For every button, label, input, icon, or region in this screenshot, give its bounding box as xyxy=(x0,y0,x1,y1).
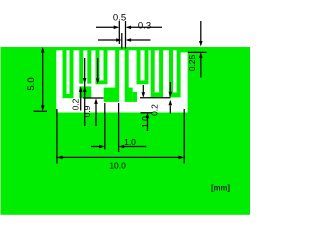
svg-text:0.2: 0.2 xyxy=(150,104,160,116)
svg-text:0.9: 0.9 xyxy=(82,105,92,117)
svg-text:5.0: 5.0 xyxy=(26,77,37,90)
svg-text:0.2: 0.2 xyxy=(70,98,80,110)
svg-text:1.0: 1.0 xyxy=(124,137,136,147)
svg-text:10.0: 10.0 xyxy=(109,161,126,171)
svg-text:0.5: 0.5 xyxy=(113,12,126,23)
svg-text:1.0: 1.0 xyxy=(140,116,150,128)
svg-text:0.3: 0.3 xyxy=(138,21,151,32)
svg-text:[mm]: [mm] xyxy=(211,184,230,193)
svg-text:0.25: 0.25 xyxy=(187,54,197,71)
